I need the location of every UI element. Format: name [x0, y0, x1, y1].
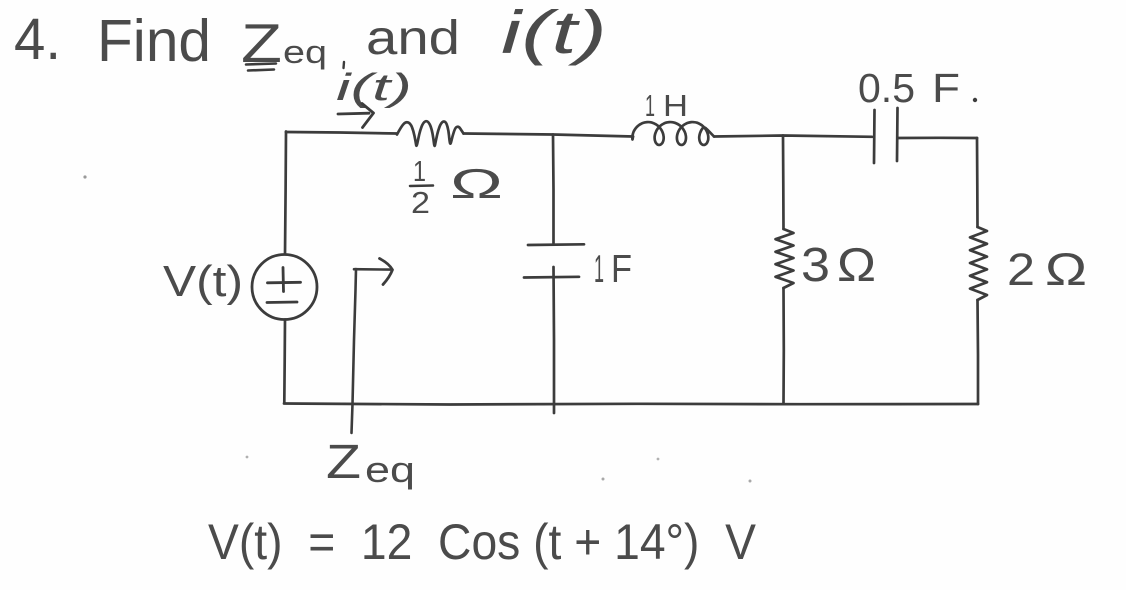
- svg-text:i(t): i(t): [336, 67, 412, 109]
- svg-text:F: F: [932, 65, 960, 111]
- wire 3-ohm branch lower: [782, 288, 785, 404]
- wire source bottom to bottom rail: [283, 320, 286, 404]
- resistor R3 (2 ohm) zigzag: [970, 227, 987, 300]
- wire top-left vertical (source top to top rail): [285, 132, 286, 255]
- svg-text:eq: eq: [365, 449, 415, 490]
- wire bottom rail: [284, 404, 978, 405]
- stray pencil dot left: [83, 175, 86, 178]
- title text "4. Find Zeq and i(t)": [14, 0, 607, 74]
- svg-text:3: 3: [801, 239, 830, 292]
- svg-text:1: 1: [413, 156, 426, 188]
- svg-text:V(t) = 12 Cos (t + 14°) V: V(t) = 12 Cos (t + 14°) V: [208, 514, 757, 570]
- wire 3-ohm branch upper: [782, 136, 785, 230]
- capacitor C1 (1F) plates: [524, 244, 584, 277]
- value label 3 ohm: [801, 238, 876, 292]
- svg-text:eq: eq: [283, 34, 327, 70]
- capacitor C2 (0.5F) plates: [874, 108, 898, 163]
- wire top rail segment 1 (left corner to resistor): [286, 132, 397, 134]
- svg-text:i(t): i(t): [501, 0, 607, 66]
- svg-text:2: 2: [1007, 244, 1035, 295]
- Zeq arrow (impedance looking-in arrow): [352, 259, 393, 434]
- svg-text:1: 1: [594, 248, 604, 291]
- current label i(t) with arrow: [336, 67, 412, 128]
- wire top rail segment 2 (resistor to inductor, node at 1F branch): [464, 134, 634, 137]
- resistor R2 (3 ohm) zigzag: [776, 229, 794, 288]
- svg-text:0.5: 0.5: [858, 65, 915, 111]
- wire top rail segment 4 (0.5F cap to right corner): [898, 136, 978, 139]
- svg-text:and: and: [366, 12, 460, 65]
- svg-text:1: 1: [645, 88, 655, 123]
- wire right vertical (corner down to 2 ohm): [976, 138, 979, 227]
- source label V(t): [163, 257, 243, 306]
- svg-text:Ω: Ω: [1045, 244, 1087, 295]
- svg-text:H: H: [663, 88, 688, 123]
- value label 1F: [594, 248, 632, 291]
- wire 1F branch lower (crosses bottom plate slightly): [552, 267, 555, 413]
- svg-text:F: F: [611, 248, 632, 291]
- label Zeq: [326, 436, 415, 490]
- svg-text:Ω: Ω: [450, 160, 503, 207]
- equation V(t) = 12 Cos (t + 14 deg) V: [208, 514, 757, 570]
- svg-text:V(t): V(t): [163, 257, 243, 306]
- wire 1F branch upper: [552, 135, 555, 244]
- stray pencil dots: [246, 456, 752, 483]
- svg-text:Ω: Ω: [837, 238, 876, 291]
- value label 1H: [645, 88, 688, 123]
- wire right vertical (2 ohm to bottom rail): [976, 300, 979, 404]
- svg-text:4.: 4.: [14, 7, 61, 72]
- voltage source V1 circle: [252, 255, 317, 320]
- value label 0.5 F: [858, 65, 977, 111]
- inductor L1 (1H) coil: [632, 122, 714, 145]
- svg-text:Z: Z: [326, 436, 361, 489]
- value label 2 ohm: [1007, 244, 1087, 295]
- value label 1/2 ohm: [410, 156, 503, 220]
- svg-text:Find: Find: [97, 8, 211, 74]
- svg-text:2: 2: [411, 185, 430, 220]
- wire top rail segment 3 (inductor to 0.5F cap, node at 3 ohm branch): [714, 136, 872, 137]
- resistor R1 (1/2 ohm) squiggle: [397, 121, 464, 146]
